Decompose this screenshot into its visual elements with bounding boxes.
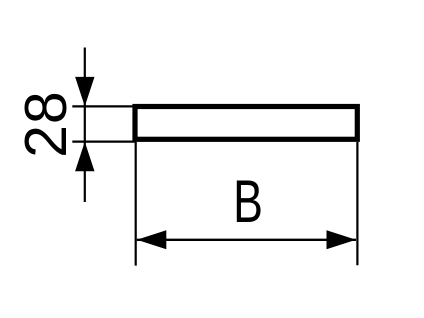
extension line right of B dimension [356, 142, 358, 265]
dimension line 28 (vertical) [84, 48, 86, 203]
flat bar cross-section rectangle [135, 107, 357, 140]
arrowhead pointing down [75, 77, 94, 107]
extension line bottom of 28 dimension [72, 141, 136, 143]
arrowhead pointing up [75, 142, 94, 172]
arrowhead pointing left [137, 230, 167, 249]
dimension line B (horizontal) [137, 239, 356, 241]
svg-text:28: 28 [13, 90, 79, 158]
arrowhead pointing right [327, 230, 357, 249]
extension line top of 28 dimension [72, 105, 136, 107]
svg-text:B: B [233, 169, 263, 236]
extension line left of B dimension [135, 142, 137, 266]
